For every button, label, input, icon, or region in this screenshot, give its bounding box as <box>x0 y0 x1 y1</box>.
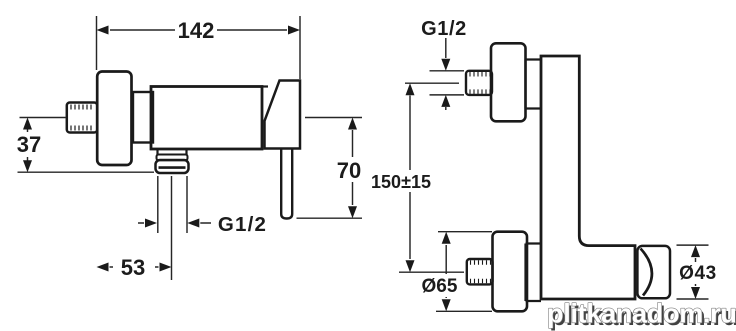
bottom inlet nipple <box>467 259 493 284</box>
svg-text:70: 70 <box>337 158 361 183</box>
aerator cup <box>156 160 189 173</box>
thread ticks on nipple <box>71 105 91 131</box>
dimension G1/2 (front) <box>145 219 157 228</box>
bottom wall flange (side view) <box>493 232 528 312</box>
main body (front view) <box>151 87 262 150</box>
L-shaped body (side view) <box>541 56 635 299</box>
cap crescent <box>641 249 652 296</box>
svg-text:37: 37 <box>17 132 41 157</box>
stub of body top edge crossing to cap <box>261 85 268 87</box>
connector between flange and body <box>133 92 153 143</box>
dimension Ø65 <box>436 232 492 312</box>
svg-text:plitkanadom.ru: plitkanadom.ru <box>547 299 736 329</box>
svg-text:Ø65: Ø65 <box>422 276 458 297</box>
spout end cap <box>637 246 670 298</box>
svg-text:Ø43: Ø43 <box>679 263 717 284</box>
dimension Ø43 <box>677 245 709 299</box>
top inlet nipple <box>466 71 492 95</box>
aerator inner line <box>159 166 186 169</box>
dimension 70 <box>297 118 363 219</box>
dimension 37 <box>18 118 155 173</box>
svg-text:G1/2: G1/2 <box>218 213 267 236</box>
outlet ring band <box>157 155 188 161</box>
svg-text:53: 53 <box>121 255 145 280</box>
dimension G1/2 (side, top) <box>430 38 465 110</box>
outlet neck <box>158 150 187 155</box>
inlet nipple front view <box>67 103 97 133</box>
lever rod <box>281 149 292 219</box>
outlet extension lines <box>158 176 187 280</box>
svg-text:150±15: 150±15 <box>371 172 431 192</box>
top step collar <box>526 60 542 109</box>
dimension 150±15 <box>399 83 464 272</box>
top wall flange (side view) <box>491 43 526 121</box>
bottom step collar <box>526 244 542 302</box>
handle end cap with diagonal <box>265 81 301 149</box>
dimension 142 <box>97 16 301 79</box>
dimension 53 <box>97 263 109 272</box>
watermark plitkanadom.ru <box>547 299 736 331</box>
svg-text:G1/2: G1/2 <box>421 18 467 40</box>
svg-text:142: 142 <box>178 18 215 43</box>
wall flange (front view) <box>97 72 131 166</box>
